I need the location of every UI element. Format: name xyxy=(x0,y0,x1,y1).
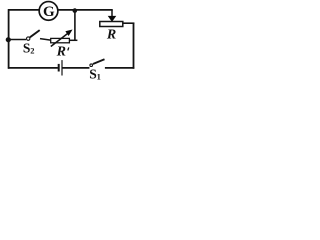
wire right vertical xyxy=(133,23,135,69)
wire left vertical xyxy=(8,9,10,69)
svg-text:S: S xyxy=(23,40,31,55)
svg-text:2: 2 xyxy=(30,45,34,55)
battery short plate xyxy=(58,64,60,72)
svg-text:R: R xyxy=(106,28,116,43)
svg-text:R: R xyxy=(56,45,66,60)
slider arrowhead onto R xyxy=(109,16,116,21)
switch S2 blade xyxy=(30,30,40,37)
node A junction dot xyxy=(73,8,78,13)
switch S1 contact circle xyxy=(90,64,93,67)
rheostat R' arrowhead xyxy=(66,30,72,35)
wire bottom left segment xyxy=(8,67,58,69)
svg-text:G: G xyxy=(43,4,55,20)
switch S2 contact circle xyxy=(27,37,30,40)
rheostat R' diagonal arrow shaft xyxy=(51,33,68,46)
node B junction dot xyxy=(6,37,11,42)
resistor R box xyxy=(100,22,123,27)
svg-text:S: S xyxy=(89,67,97,81)
wire from R right end xyxy=(123,22,134,24)
wire vertical from node A down to R' right end xyxy=(74,11,76,41)
wire from node B to S2 xyxy=(8,39,26,41)
rheostat R' box xyxy=(51,38,70,42)
wire bottom between S1 and battery xyxy=(62,67,89,69)
wire from S2 to R' left end xyxy=(40,39,51,41)
wire from R' right end to junction vertical xyxy=(70,39,78,41)
wire bottom right segment xyxy=(105,67,134,69)
wire slider arrow stem above R xyxy=(111,10,113,18)
battery long plate xyxy=(61,60,63,75)
wire top-left horizontal xyxy=(8,9,39,11)
svg-text:1: 1 xyxy=(97,71,101,81)
prime tick of R label xyxy=(68,47,69,50)
switch S1 blade xyxy=(93,59,105,64)
galvanometer G xyxy=(39,2,58,21)
wire top horizontal from G to corner xyxy=(58,9,113,11)
